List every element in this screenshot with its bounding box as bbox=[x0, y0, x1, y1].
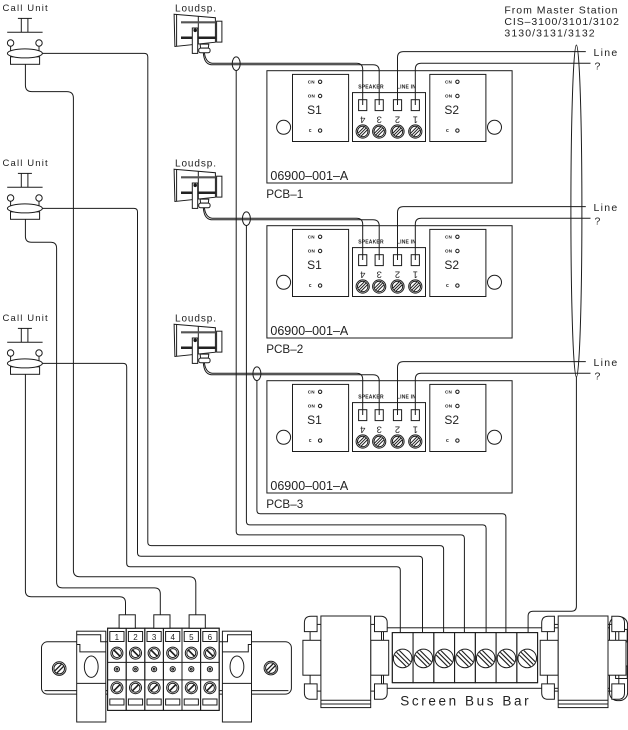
svg-text:LINE IN: LINE IN bbox=[397, 84, 416, 90]
svg-text:2: 2 bbox=[133, 633, 138, 642]
svg-text:06900–001–A: 06900–001–A bbox=[270, 169, 349, 183]
svg-text:3: 3 bbox=[377, 113, 382, 124]
svg-text:SPEAKER: SPEAKER bbox=[358, 84, 384, 90]
svg-text:From Master Station: From Master Station bbox=[504, 5, 618, 17]
svg-text:3: 3 bbox=[377, 423, 382, 434]
svg-text:Call Unit: Call Unit bbox=[3, 158, 49, 169]
svg-text:CN: CN bbox=[308, 79, 316, 84]
svg-text:2: 2 bbox=[395, 268, 400, 279]
svg-text:?: ? bbox=[595, 60, 602, 72]
svg-text:Loudsp.: Loudsp. bbox=[175, 314, 217, 325]
svg-text:1: 1 bbox=[115, 633, 120, 642]
svg-text:06900–001–A: 06900–001–A bbox=[270, 324, 349, 338]
svg-text:6: 6 bbox=[208, 633, 213, 642]
svg-text:c: c bbox=[309, 128, 312, 134]
svg-text:CIS–3100/3101/3102: CIS–3100/3101/3102 bbox=[504, 16, 619, 28]
svg-text:SPEAKER: SPEAKER bbox=[358, 239, 384, 245]
svg-text:2: 2 bbox=[395, 113, 400, 124]
svg-text:06900–001–A: 06900–001–A bbox=[270, 479, 349, 493]
svg-text:c: c bbox=[446, 438, 449, 444]
svg-text:3130/3131/3132: 3130/3131/3132 bbox=[504, 28, 595, 40]
svg-text:S1: S1 bbox=[307, 413, 322, 427]
svg-text:S2: S2 bbox=[444, 258, 459, 272]
svg-text:ON: ON bbox=[445, 404, 453, 409]
svg-text:CN: CN bbox=[445, 79, 453, 84]
svg-text:4: 4 bbox=[360, 268, 365, 279]
svg-text:4: 4 bbox=[360, 113, 365, 124]
svg-text:S2: S2 bbox=[444, 413, 459, 427]
svg-text:2: 2 bbox=[395, 423, 400, 434]
svg-text:1: 1 bbox=[413, 268, 418, 279]
svg-text:c: c bbox=[309, 283, 312, 289]
svg-text:Loudsp.: Loudsp. bbox=[175, 159, 217, 170]
svg-text:ON: ON bbox=[308, 94, 316, 99]
svg-text:Line: Line bbox=[594, 202, 619, 214]
svg-text:CN: CN bbox=[308, 234, 316, 239]
svg-text:PCB–3: PCB–3 bbox=[266, 498, 303, 511]
svg-text:ON: ON bbox=[445, 249, 453, 254]
svg-text:?: ? bbox=[595, 370, 602, 382]
svg-text:c: c bbox=[446, 128, 449, 134]
svg-text:5: 5 bbox=[189, 633, 194, 642]
svg-text:S1: S1 bbox=[307, 258, 322, 272]
svg-text:ON: ON bbox=[308, 404, 316, 409]
svg-text:?: ? bbox=[595, 215, 602, 227]
svg-text:1: 1 bbox=[413, 113, 418, 124]
svg-text:3: 3 bbox=[152, 633, 157, 642]
svg-text:ON: ON bbox=[308, 249, 316, 254]
svg-text:CN: CN bbox=[445, 234, 453, 239]
svg-text:4: 4 bbox=[360, 423, 365, 434]
svg-text:3: 3 bbox=[377, 268, 382, 279]
svg-text:SPEAKER: SPEAKER bbox=[358, 394, 384, 400]
svg-text:c: c bbox=[309, 438, 312, 444]
svg-text:PCB–1: PCB–1 bbox=[266, 188, 303, 201]
svg-text:S2: S2 bbox=[444, 103, 459, 117]
svg-text:c: c bbox=[446, 283, 449, 289]
svg-text:Call Unit: Call Unit bbox=[3, 3, 49, 14]
svg-text:4: 4 bbox=[170, 633, 175, 642]
svg-text:LINE IN: LINE IN bbox=[397, 239, 416, 245]
svg-text:1: 1 bbox=[413, 423, 418, 434]
svg-text:S1: S1 bbox=[307, 103, 322, 117]
svg-text:LINE IN: LINE IN bbox=[397, 394, 416, 400]
svg-text:Line: Line bbox=[594, 47, 619, 59]
svg-text:Screen Bus Bar: Screen Bus Bar bbox=[400, 694, 531, 709]
svg-text:CN: CN bbox=[445, 389, 453, 394]
svg-text:CN: CN bbox=[308, 389, 316, 394]
svg-text:PCB–2: PCB–2 bbox=[266, 343, 303, 356]
svg-text:Call Unit: Call Unit bbox=[3, 313, 49, 324]
svg-text:Loudsp.: Loudsp. bbox=[175, 4, 217, 15]
svg-text:ON: ON bbox=[445, 94, 453, 99]
svg-text:Line: Line bbox=[594, 357, 619, 369]
